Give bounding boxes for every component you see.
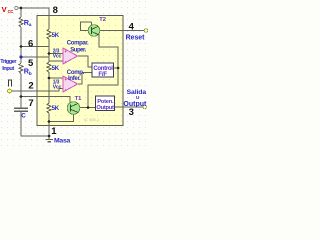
junction output stage node: [87, 106, 90, 109]
wire pin8 divider: [48, 16, 50, 30]
terminal trigger: [8, 89, 12, 93]
svg-text:a: a: [29, 23, 32, 28]
svg-text:Output: Output: [96, 105, 114, 111]
svg-text:+: +: [64, 49, 67, 54]
terminal Vcc: [15, 6, 18, 9]
wire comparator upper minus input: [49, 60, 63, 62]
svg-text:CC: CC: [8, 9, 14, 14]
terminal pin5 dot: [20, 56, 23, 59]
wire pin1: [48, 126, 50, 140]
comparator upper (Compar. Super.): [63, 48, 78, 64]
junction FF output node: [117, 67, 120, 70]
wire C to ground rail: [21, 111, 49, 136]
junction emitter ground node: [48, 120, 51, 123]
junction node pin7: [20, 95, 23, 98]
svg-text:8: 8: [53, 5, 58, 16]
svg-text:7: 7: [28, 98, 33, 109]
junction node pin6: [20, 45, 23, 48]
junction node 1/3 Vcc: [48, 77, 51, 80]
wire pin7: [21, 96, 37, 98]
svg-text:3: 3: [129, 107, 134, 118]
resistor 5K top: [47, 29, 51, 39]
svg-text:Output: Output: [123, 101, 147, 108]
transistor T2: [88, 25, 100, 37]
wire T2 collector stub: [91, 22, 93, 25]
svg-text:6: 6: [28, 39, 33, 50]
svg-text:V: V: [2, 5, 7, 14]
ground: [46, 140, 53, 142]
resistor 5K middle: [47, 62, 51, 72]
wire T2 base L: [81, 22, 92, 31]
svg-text:Vcc: Vcc: [53, 54, 62, 60]
wire pin2 internal: [37, 89, 63, 92]
svg-text:Compar.: Compar.: [67, 41, 89, 47]
wire T2 emitter to FF node: [88, 34, 118, 108]
svg-text:C: C: [21, 112, 26, 119]
svg-text:Trigger: Trigger: [0, 59, 17, 65]
svg-text:Comp.: Comp.: [67, 70, 85, 76]
wire T1 collector to output stage: [80, 107, 96, 109]
resistor Rb: [19, 63, 23, 73]
wire pin6 internal: [37, 46, 49, 48]
wire pin7 to T1 base: [37, 97, 70, 104]
comparator lower (Comp. Infer.): [63, 76, 78, 92]
wire pin6: [21, 46, 37, 48]
terminal pin4: [144, 29, 148, 33]
svg-text:Infer.: Infer.: [68, 76, 81, 82]
wire Rb to pin7 node: [20, 73, 22, 108]
wire Ra to node6: [20, 27, 22, 63]
svg-text:Masa: Masa: [54, 138, 70, 145]
svg-text:Reset: Reset: [126, 34, 146, 41]
wire divider mid2: [48, 72, 50, 103]
svg-text:5K: 5K: [52, 33, 60, 39]
terminal pin3: [143, 105, 147, 109]
svg-text:4: 4: [129, 21, 135, 32]
svg-text:Control: Control: [93, 66, 113, 72]
decorative dot grid: [0, 0, 150, 150]
svg-text:IC 555-1: IC 555-1: [84, 117, 100, 122]
wire 2/3Vcc to comparator: [49, 53, 63, 55]
wire pin3 output: [115, 106, 143, 108]
wire comp-inf output: [78, 73, 93, 85]
box Control F/F: [92, 63, 114, 77]
svg-text:+: +: [64, 77, 67, 82]
svg-text:Super.: Super.: [70, 47, 86, 53]
wire FF output: [114, 67, 119, 69]
wire pin4 reset: [100, 30, 145, 32]
svg-text:T2: T2: [99, 17, 106, 23]
wire comp-sup output: [78, 56, 93, 67]
junction Vcc node: [20, 7, 23, 10]
svg-text:2: 2: [28, 81, 33, 92]
svg-text:b: b: [29, 71, 32, 77]
wire Vcc top rail: [18, 8, 49, 16]
wire T1 emitter to ground node: [49, 114, 74, 121]
wire pin2 trigger: [12, 90, 37, 92]
svg-text:5K: 5K: [52, 106, 60, 112]
transistor T1: [67, 102, 80, 115]
resistor 5K bottom: [47, 103, 51, 113]
IC body box: [37, 16, 123, 126]
junction ground rail node: [48, 135, 51, 138]
wire left chain upper: [20, 8, 22, 17]
wire pin5: [21, 56, 49, 58]
capacitor C: [14, 108, 28, 111]
box Poten. Output: [96, 96, 115, 111]
text layer: [0, 5, 147, 145]
wire divider bottom: [48, 113, 50, 126]
svg-text:1: 1: [51, 126, 57, 137]
wire divider mid1: [48, 39, 50, 62]
wire 1/3Vcc to comparator: [49, 77, 63, 79]
resistor Ra: [19, 17, 23, 27]
svg-text:Input: Input: [2, 66, 14, 72]
svg-text:T1: T1: [75, 96, 83, 102]
junction node 2/3 Vcc: [48, 52, 51, 55]
svg-text:F/F: F/F: [98, 72, 107, 78]
svg-text:Vcc: Vcc: [53, 85, 62, 91]
trigger pulse glyph: [9, 80, 12, 87]
svg-text:5K: 5K: [52, 66, 60, 72]
